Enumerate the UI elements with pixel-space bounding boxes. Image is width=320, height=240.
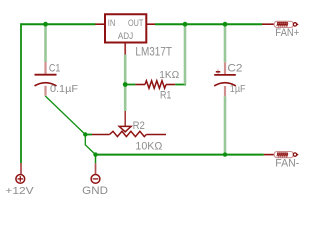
svg-text:C1: C1	[49, 62, 61, 74]
svg-text:1KΩ: 1KΩ	[159, 69, 179, 81]
svg-text:+12V: +12V	[5, 185, 33, 197]
svg-text:IN: IN	[108, 18, 116, 28]
svg-text:OUT: OUT	[128, 18, 144, 28]
svg-text:LM317T: LM317T	[135, 44, 172, 58]
svg-text:0.1µF: 0.1µF	[50, 83, 78, 95]
svg-text:1µF: 1µF	[230, 83, 246, 95]
svg-text:R2: R2	[133, 120, 145, 132]
svg-text:C2: C2	[227, 62, 242, 74]
svg-text:FAN-: FAN-	[275, 157, 299, 169]
svg-text:ADJ: ADJ	[118, 31, 133, 41]
svg-text:R1: R1	[160, 90, 171, 102]
svg-text:10KΩ: 10KΩ	[135, 140, 162, 152]
svg-text:GND: GND	[82, 185, 108, 197]
svg-text:FAN+: FAN+	[275, 27, 299, 39]
